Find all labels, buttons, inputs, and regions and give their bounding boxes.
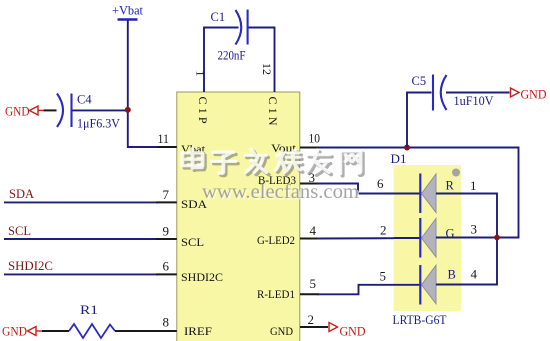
LED blue cathode bar [419,265,421,305]
svg-text:C1: C1 [211,10,226,24]
svg-text:D1: D1 [391,152,407,166]
wire GND to R1 [42,330,69,332]
svg-text:C1P: C1P [196,97,210,127]
LED red cathode bar [419,174,421,214]
svg-text:G-LED2: G-LED2 [257,233,295,247]
svg-text:10: 10 [309,131,321,146]
svg-text:4: 4 [471,267,478,282]
LED green cathode bar [419,218,421,258]
capacitor C4 [57,93,120,131]
svg-text:220nF: 220nF [218,49,246,63]
junction node Vbat/C4 [125,107,131,113]
svg-text:SHDI2C: SHDI2C [181,270,223,284]
svg-text:GND: GND [270,324,293,338]
svg-text:LRTB-G6T: LRTB-G6T [393,313,447,327]
wire pin5 black stub [300,293,319,295]
svg-text:+Vbat: +Vbat [112,3,143,18]
ground port GND (IREF, bottom left) [2,325,42,339]
svg-text:C1N: C1N [266,97,280,129]
ground port GND (pin 2, bottom) [329,323,366,339]
svg-text:G: G [446,227,455,241]
svg-text:9: 9 [163,224,170,239]
ground port GND (top right) [511,88,547,102]
power symbol +Vbat [112,3,143,20]
LED red triangle [422,174,437,213]
svg-text:11: 11 [158,131,170,146]
wire C1 right leg [249,28,275,93]
wire Vbat rail (bar to junction to pin 11 corner) [128,21,160,148]
svg-text:R: R [446,179,455,193]
svg-text:GND: GND [340,325,366,339]
wire SHDI2C [4,273,158,275]
svg-text:8: 8 [163,315,170,330]
svg-text:C4: C4 [77,93,92,107]
wire SDA [4,201,158,203]
capacitor C1 [211,10,248,63]
svg-text:5: 5 [310,276,317,291]
svg-text:SDA: SDA [9,186,35,201]
wire pin10 black stub [300,147,321,149]
svg-text:B: B [448,268,456,282]
svg-text:2: 2 [308,312,315,327]
svg-text:SCL: SCL [181,235,204,249]
decorative gray dot [452,169,460,177]
svg-text:6: 6 [377,176,384,191]
junction node LED anodes [494,235,500,241]
svg-text:1μF6.3V: 1μF6.3V [77,117,120,131]
svg-text:GND: GND [521,88,547,102]
svg-text:SHDI2C: SHDI2C [8,258,53,273]
svg-text:12: 12 [260,63,274,75]
wire SCL [4,238,158,240]
svg-text:5: 5 [380,269,387,284]
wire LED blue anode to rail [436,238,497,285]
wire C5 leg [407,93,432,148]
svg-text:6: 6 [163,259,170,274]
svg-text:www.elecfans.com: www.elecfans.com [202,181,359,203]
svg-text:1uF10V: 1uF10V [454,94,494,108]
resistor R1 [69,303,115,338]
LED green triangle [422,219,437,258]
junction node Vout/C5 [404,145,410,151]
capacitor C5 [412,74,494,111]
svg-text:1: 1 [194,71,208,77]
svg-text:GND: GND [2,325,27,339]
LED blue triangle [422,265,437,304]
svg-text:4: 4 [310,223,317,238]
wire pin5 R-LED1 to LED pin 5 [317,285,394,295]
wire Vout rail to LED anodes [319,148,519,238]
svg-text:1: 1 [470,178,477,193]
wire R1 to pin 8 [115,330,177,332]
wire LED green anode to junction [436,237,497,239]
svg-text:7: 7 [163,187,170,202]
LED blue: wire through [394,284,436,286]
svg-text:GND: GND [5,105,30,119]
LED green: wire through [394,237,436,239]
wire pin4 black stub [300,238,319,240]
watermark white [182,149,360,174]
svg-text:IREF: IREF [184,324,212,338]
wire LED red anode to rail [436,194,497,238]
LED red: wire through [394,193,436,195]
svg-text:C5: C5 [412,74,427,88]
wire C4 to junction [73,109,128,111]
wire pin3 black stub [300,183,319,185]
svg-text:SCL: SCL [8,223,31,238]
wire pin3 B-LED3 to LED pin 6 [317,184,394,194]
wire GND to C4 (black segment) [44,109,57,111]
IC U1 body [177,92,300,341]
svg-text:3: 3 [471,222,478,237]
svg-text:2: 2 [380,223,387,238]
wire C5 to GND port [446,92,510,94]
LED package D1 body [394,165,462,311]
svg-text:R1: R1 [80,303,98,317]
wire pin11 black stub [157,146,177,148]
wire pin4 G-LED2 to LED pin 2 [317,237,394,239]
watermark shadow [185,151,363,176]
ground port GND (left of C4) [5,105,44,119]
wire pin2 black stub [300,326,328,328]
wire C1 left leg [204,28,239,93]
svg-text:R-LED1: R-LED1 [257,287,295,301]
